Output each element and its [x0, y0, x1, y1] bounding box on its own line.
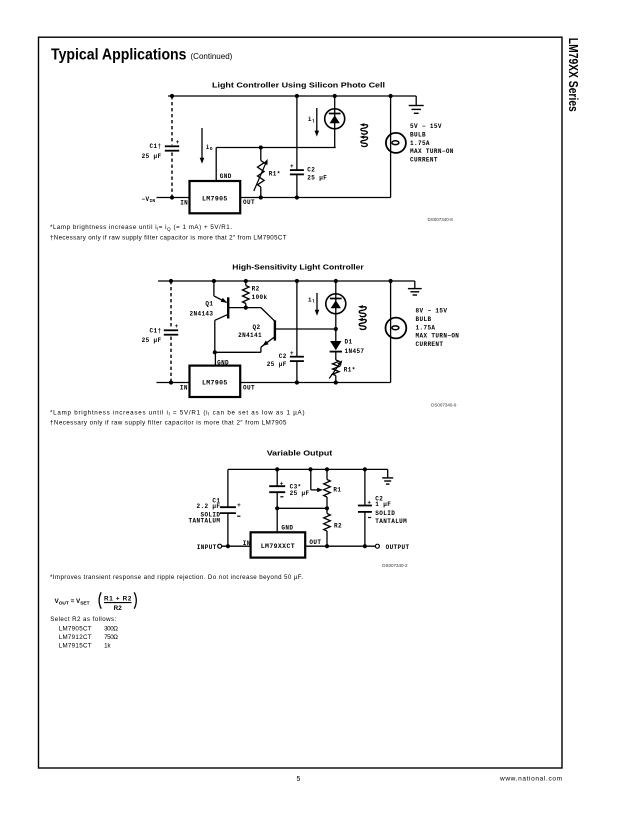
svg-text:Select R2 as follows:: Select R2 as follows:	[50, 616, 116, 623]
svg-text:OUT: OUT	[243, 199, 255, 206]
svg-text:1.75A: 1.75A	[416, 324, 436, 331]
svg-text:LM7905CT: LM7905CT	[59, 625, 92, 632]
svg-text:Q2: Q2	[253, 324, 261, 331]
svg-text:C2: C2	[279, 353, 287, 360]
node OUTPUT terminal	[375, 544, 409, 551]
transistor Q1 2N4143	[190, 281, 275, 352]
svg-text:R1 + R2: R1 + R2	[104, 595, 132, 602]
svg-text:+: +	[290, 163, 294, 170]
regulator U2 LM7905 (circuit 2)	[180, 360, 255, 397]
svg-text:Q1: Q1	[205, 300, 213, 307]
svg-text:Variable Output: Variable Output	[267, 449, 333, 458]
wire GND net horizontal c3	[277, 507, 327, 509]
wire output rail c3	[305, 544, 375, 548]
svg-text:R2: R2	[334, 523, 342, 530]
svg-text:2N4141: 2N4141	[238, 332, 262, 339]
svg-text:Light Controller Using Silicon: Light Controller Using Silicon Photo Cel…	[212, 81, 385, 90]
svg-text:D1: D1	[345, 339, 353, 346]
capacitor C1 2.2uF solid tantalum (circuit 3)	[189, 469, 242, 546]
bulb rating text c2	[416, 308, 460, 349]
footnotes circuit 2	[50, 409, 305, 426]
svg-text:25 µF: 25 µF	[142, 337, 162, 344]
svg-text:IN: IN	[243, 540, 251, 547]
capacitor C2 1uF solid tantalum (circuit 3)	[358, 469, 407, 546]
svg-text:BULB: BULB	[416, 316, 432, 323]
ground symbol c2	[408, 281, 422, 295]
svg-text:C2: C2	[307, 166, 315, 173]
svg-text:IN: IN	[180, 385, 188, 392]
svg-text:+: +	[367, 500, 371, 507]
svg-text:GND: GND	[220, 173, 232, 180]
wire bottom rail c2 left	[157, 382, 190, 384]
svg-text:R2: R2	[114, 605, 123, 612]
junction dots bottom rail c2	[169, 380, 338, 384]
svg-text:IN: IN	[180, 199, 188, 206]
svg-text:INPUT: INPUT	[197, 544, 217, 551]
resistor R1 (circuit 3) with wiper arrow	[311, 469, 342, 510]
svg-text:1k: 1k	[104, 643, 111, 650]
sidebar title LM79XX Series	[566, 38, 580, 112]
capacitor C1 (circuit 2, dashed branch)	[142, 281, 179, 383]
svg-text:C1†: C1†	[150, 143, 162, 150]
svg-text:†Necessary only if raw supply: †Necessary only if raw supply filter cap…	[50, 235, 287, 242]
svg-text:GND: GND	[217, 360, 229, 367]
svg-text:*Improves transient response a: *Improves transient response and ripple …	[50, 574, 303, 581]
wire input rail c3	[222, 545, 251, 547]
wire top rail c2	[158, 280, 415, 282]
svg-text:LM7915CT: LM7915CT	[59, 643, 92, 650]
svg-text:+: +	[280, 480, 284, 487]
svg-text:OUT: OUT	[243, 385, 255, 392]
page heading Typical Applications (Continued)	[51, 47, 233, 64]
svg-text:(Continued): (Continued)	[191, 52, 233, 61]
capacitor C2 (circuit 2)	[267, 281, 304, 383]
svg-text:R1*: R1*	[269, 171, 281, 178]
R2 selection table	[50, 616, 118, 650]
svg-text:GND: GND	[281, 525, 293, 532]
svg-text:TANTALUM: TANTALUM	[375, 518, 407, 525]
svg-text:R1*: R1*	[344, 367, 356, 374]
wire top rail c3	[228, 468, 388, 470]
svg-text:BULB: BULB	[410, 131, 426, 138]
svg-text:LM7905: LM7905	[202, 380, 228, 387]
svg-text:25 µF: 25 µF	[267, 361, 287, 368]
resistor R2 100k	[243, 281, 268, 310]
resistor R2 (circuit 3)	[324, 508, 342, 548]
svg-text:1N457: 1N457	[345, 348, 365, 355]
svg-text:TANTALUM: TANTALUM	[189, 518, 221, 525]
svg-text:OUT: OUT	[309, 539, 321, 546]
svg-text:DS007340-2: DS007340-2	[382, 563, 408, 568]
lamp bulb (circuit 2)	[386, 281, 407, 383]
svg-text:LM79XX Series: LM79XX Series	[566, 38, 580, 112]
svg-text:5: 5	[297, 776, 301, 783]
svg-text:*Lamp brightness increase unti: *Lamp brightness increase until il= iQ (…	[50, 224, 232, 231]
capacitor C1 (circuit 1, dashed branch)	[142, 96, 180, 198]
node top rail c1	[168, 95, 416, 97]
capacitor C3 25uF	[269, 469, 309, 508]
svg-text:2N4143: 2N4143	[190, 311, 214, 318]
svg-text:LM79XXCT: LM79XXCT	[261, 543, 295, 550]
lamp bulb (circuit 1)	[386, 96, 406, 198]
svg-text:R2: R2	[252, 286, 260, 293]
wire bottom rail c2 right	[240, 382, 391, 384]
svg-text:MAX TURN−ON: MAX TURN−ON	[410, 148, 454, 155]
svg-text:OUTPUT: OUTPUT	[386, 544, 410, 551]
photodiode (circuit 2) with current arrow il	[308, 281, 346, 341]
wire bottom rail c1 right	[240, 197, 391, 199]
footnotes circuit 1	[50, 224, 287, 241]
svg-text:1.75A: 1.75A	[410, 140, 430, 147]
wire GND net c1	[216, 145, 336, 181]
svg-text:Typical Applications: Typical Applications	[51, 47, 187, 64]
light rays symbol c2	[358, 305, 366, 329]
svg-text:†Necessary only if raw supply: †Necessary only if raw supply filter cap…	[50, 420, 287, 427]
svg-text:25 µF: 25 µF	[307, 174, 327, 181]
svg-text:C1†: C1†	[150, 327, 162, 334]
svg-text:R1: R1	[333, 486, 341, 493]
resistor R1 (circuit 1, variable)	[254, 148, 281, 198]
junction dot input rail	[226, 544, 230, 548]
svg-text:MAX TURN−ON: MAX TURN−ON	[416, 333, 460, 340]
capacitor C2 (circuit 1)	[290, 96, 327, 198]
svg-text:CURRENT: CURRENT	[416, 341, 444, 348]
current arrow iO	[200, 128, 213, 164]
svg-text:100k: 100k	[252, 294, 268, 301]
transistor Q2 2N4141	[213, 320, 336, 365]
svg-text:8V − 15V: 8V − 15V	[416, 308, 448, 315]
svg-text:High-Sensitivity Light Control: High-Sensitivity Light Controller	[232, 263, 364, 272]
svg-text:2.2 µF: 2.2 µF	[197, 503, 221, 510]
formula VOUT = VSET (R1+R2)/R2	[55, 592, 137, 612]
svg-text:LM7912CT: LM7912CT	[59, 634, 92, 641]
svg-text:SOLID: SOLID	[375, 510, 395, 517]
svg-text:CURRENT: CURRENT	[410, 157, 438, 164]
ground symbol c1	[409, 96, 424, 113]
svg-text:DS007340-8: DS007340-8	[428, 217, 454, 222]
diode D1 1N457	[330, 339, 365, 360]
junction dots top rail c1	[170, 94, 393, 98]
svg-text:+: +	[237, 502, 241, 509]
ground symbol c3	[382, 469, 393, 484]
regulator U3 LM79XXCT	[243, 525, 322, 558]
junction dots bottom rail c1	[170, 195, 299, 199]
svg-text:25 µF: 25 µF	[290, 490, 310, 497]
svg-text:*Lamp brightness increases unt: *Lamp brightness increases until il = 5V…	[50, 409, 305, 416]
svg-text:+: +	[175, 323, 179, 330]
resistor R1 (circuit 2, variable)	[329, 359, 356, 382]
wire bottom rail c1 left	[157, 197, 190, 199]
bulb rating text c1	[410, 123, 454, 164]
svg-text:+: +	[176, 139, 180, 146]
svg-text:+: +	[290, 350, 294, 357]
light rays symbol c1	[360, 123, 368, 146]
photodiode D (circuit 1) with current arrow il	[308, 96, 345, 148]
svg-text:750Ω: 750Ω	[104, 634, 118, 641]
regulator U1 LM7905 (circuit 1)	[180, 173, 255, 214]
svg-text:25 µF: 25 µF	[142, 153, 162, 160]
node INPUT terminal	[197, 544, 222, 551]
junction dots top rail c3	[275, 467, 367, 471]
wire GND pin c3	[275, 506, 279, 532]
svg-text:LM7905: LM7905	[202, 195, 228, 202]
svg-text:300Ω: 300Ω	[104, 625, 118, 632]
svg-text:DS007340-9: DS007340-9	[431, 403, 457, 408]
junction dots top rail c2	[169, 279, 393, 283]
svg-text:1 µF: 1 µF	[375, 501, 391, 508]
svg-text:5V − 15V: 5V − 15V	[410, 123, 442, 130]
svg-text:www.national.com: www.national.com	[499, 776, 562, 783]
